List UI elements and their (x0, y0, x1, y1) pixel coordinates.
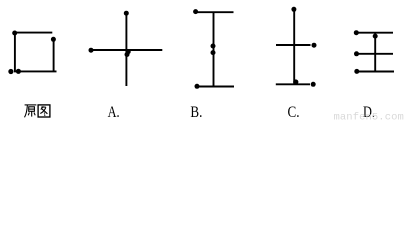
option C: vertical wire (293, 9, 295, 84)
option B: dot middle lower (211, 50, 216, 55)
option A: dot top end (124, 11, 129, 16)
option C: lower bar wire (276, 83, 310, 85)
option D: top bar wire (358, 32, 393, 34)
original figure: top edge wire (14, 32, 52, 34)
option B: dot top bar left end (193, 9, 198, 14)
option B: dot middle upper (211, 44, 216, 49)
option D: vertical wire (374, 33, 376, 72)
option B: top bar wire (196, 11, 234, 13)
option A: dot centre upper (126, 49, 131, 54)
label 图 (hand drawn) (38, 105, 50, 117)
option D: dot top bar left end (354, 30, 359, 35)
original figure: bottom edge wire (14, 70, 57, 72)
option B: bottom bar wire (198, 86, 234, 88)
option A: horizontal wire (92, 49, 163, 51)
original figure: dot top-left corner (12, 31, 17, 36)
option D: dot middle bar left end (354, 51, 359, 56)
original figure: right edge wire (53, 38, 55, 72)
option A: dot left end (89, 48, 94, 53)
option D: middle bar wire (359, 53, 394, 55)
option A: vertical wire (125, 13, 127, 86)
original figure: dot bottom-left outside (8, 69, 13, 74)
original figure: left edge wire (14, 33, 16, 72)
option B: vertical wire (213, 12, 215, 86)
original figure: dot right edge upper (51, 37, 56, 42)
option B: dot bottom bar left end (195, 84, 200, 89)
option A: dot centre lower (125, 52, 130, 57)
option C: dot upper bar right end (312, 43, 317, 48)
option C: upper bar wire (276, 44, 311, 46)
option C: dot top end (291, 7, 296, 12)
svg-text:B.: B. (190, 104, 202, 121)
svg-text:C.: C. (288, 104, 300, 121)
option D: bottom bar wire (359, 71, 394, 73)
option D: dot bottom bar left end (354, 69, 359, 74)
option C: dot lower junction (293, 79, 298, 84)
original figure: dot bottom edge inner (16, 69, 21, 74)
label 原 (hand drawn) (25, 105, 37, 117)
svg-text:A.: A. (108, 104, 120, 121)
option D: dot below top bar on vertical (373, 34, 378, 39)
svg-text:manfen5.com: manfen5.com (334, 112, 404, 123)
option C: dot lower bar right end (311, 82, 316, 87)
